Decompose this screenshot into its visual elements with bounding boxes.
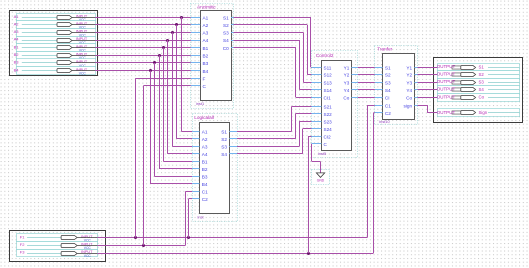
svg-text:CI: CI (385, 96, 390, 101)
svg-text:Co: Co (343, 96, 349, 101)
svg-text:S1: S1 (479, 64, 485, 69)
svg-text:Y3: Y3 (406, 80, 412, 85)
svg-text:Y4: Y4 (344, 88, 350, 93)
svg-text:A4: A4 (202, 152, 208, 157)
svg-text:B4: B4 (14, 67, 20, 72)
svg-text:B2: B2 (14, 52, 20, 57)
svg-text:OUTPUT: OUTPUT (437, 79, 456, 84)
svg-text:GND: GND (317, 179, 325, 183)
svg-text:Ancimitic: Ancimitic (197, 5, 216, 10)
svg-text:S13: S13 (324, 80, 333, 85)
svg-text:B3: B3 (203, 61, 209, 66)
svg-text:A4: A4 (14, 37, 20, 42)
svg-text:S3: S3 (221, 145, 227, 150)
svg-text:F2: F2 (20, 242, 25, 247)
svg-text:Co: Co (406, 96, 412, 101)
svg-text:VCC: VCC (84, 254, 92, 258)
svg-text:OUTPUT: OUTPUT (437, 64, 456, 69)
svg-text:S4: S4 (479, 87, 485, 92)
svg-text:A2: A2 (202, 137, 208, 142)
svg-text:A3: A3 (202, 145, 208, 150)
svg-text:CI2: CI2 (324, 134, 332, 139)
svg-text:CI1: CI1 (324, 96, 332, 101)
svg-text:S3: S3 (479, 79, 485, 84)
svg-text:B3: B3 (202, 175, 208, 180)
svg-text:inst10: inst10 (379, 119, 390, 124)
svg-text:B4: B4 (203, 69, 209, 74)
svg-text:Y2: Y2 (406, 73, 412, 78)
svg-text:OUTPUT: OUTPUT (437, 72, 456, 77)
svg-text:S4: S4 (221, 152, 227, 157)
svg-text:S14: S14 (324, 88, 333, 93)
svg-text:F3: F3 (20, 250, 25, 255)
svg-text:B4: B4 (202, 182, 208, 187)
svg-text:OUTPUT: OUTPUT (437, 110, 456, 115)
svg-text:S1: S1 (221, 130, 227, 135)
svg-text:Tranfer: Tranfer (377, 47, 392, 52)
svg-text:S2: S2 (221, 137, 227, 142)
svg-text:S4: S4 (385, 88, 391, 93)
svg-text:A1: A1 (14, 14, 20, 19)
svg-text:S2: S2 (479, 72, 485, 77)
svg-text:A3: A3 (14, 29, 20, 34)
svg-text:C0: C0 (223, 46, 229, 51)
svg-text:B1: B1 (203, 46, 209, 51)
svg-text:OUTPUT: OUTPUT (437, 94, 456, 99)
svg-text:F: F (203, 76, 206, 81)
svg-text:inst1: inst1 (196, 101, 204, 106)
svg-text:F1: F1 (20, 234, 25, 239)
svg-text:A4: A4 (203, 38, 209, 43)
svg-text:B1: B1 (14, 44, 20, 49)
svg-text:B2: B2 (203, 54, 209, 59)
svg-text:S24: S24 (324, 127, 333, 132)
svg-text:B2: B2 (202, 167, 208, 172)
svg-text:S1: S1 (385, 65, 391, 70)
svg-text:S21: S21 (324, 105, 333, 110)
svg-text:S1: S1 (223, 15, 229, 20)
svg-text:Co: Co (479, 95, 485, 100)
svg-text:Y3: Y3 (344, 80, 350, 85)
svg-text:A1: A1 (203, 15, 209, 20)
svg-text:S2: S2 (385, 73, 391, 78)
svg-text:C1: C1 (385, 104, 391, 109)
svg-text:sign: sign (403, 104, 412, 109)
svg-text:S3: S3 (385, 80, 391, 85)
svg-text:S2: S2 (223, 23, 229, 28)
svg-text:C1: C1 (202, 190, 208, 195)
svg-text:B1: B1 (202, 160, 208, 165)
svg-text:Y4: Y4 (406, 88, 412, 93)
svg-text:Y2: Y2 (344, 73, 350, 78)
svg-text:OUTPUT: OUTPUT (437, 87, 456, 92)
svg-text:Logicalall: Logicalall (194, 115, 214, 120)
svg-text:Y1: Y1 (344, 65, 350, 70)
svg-text:A1: A1 (202, 130, 208, 135)
svg-text:A2: A2 (203, 23, 209, 28)
svg-text:Y1: Y1 (406, 65, 412, 70)
svg-text:Control2: Control2 (316, 53, 334, 58)
svg-text:S4: S4 (223, 38, 229, 43)
svg-text:inst5: inst5 (318, 151, 326, 156)
svg-text:C2: C2 (385, 111, 391, 116)
svg-text:VCC: VCC (79, 72, 87, 76)
svg-text:S22: S22 (324, 112, 333, 117)
svg-text:inst: inst (198, 214, 205, 219)
svg-text:S11: S11 (324, 65, 332, 70)
svg-text:A2: A2 (14, 21, 20, 26)
svg-text:Sign: Sign (479, 110, 488, 115)
svg-text:S12: S12 (324, 73, 333, 78)
svg-text:S23: S23 (324, 120, 333, 125)
svg-text:B3: B3 (14, 60, 20, 65)
svg-text:A3: A3 (203, 31, 209, 36)
svg-text:S3: S3 (223, 31, 229, 36)
svg-text:C2: C2 (202, 197, 208, 202)
